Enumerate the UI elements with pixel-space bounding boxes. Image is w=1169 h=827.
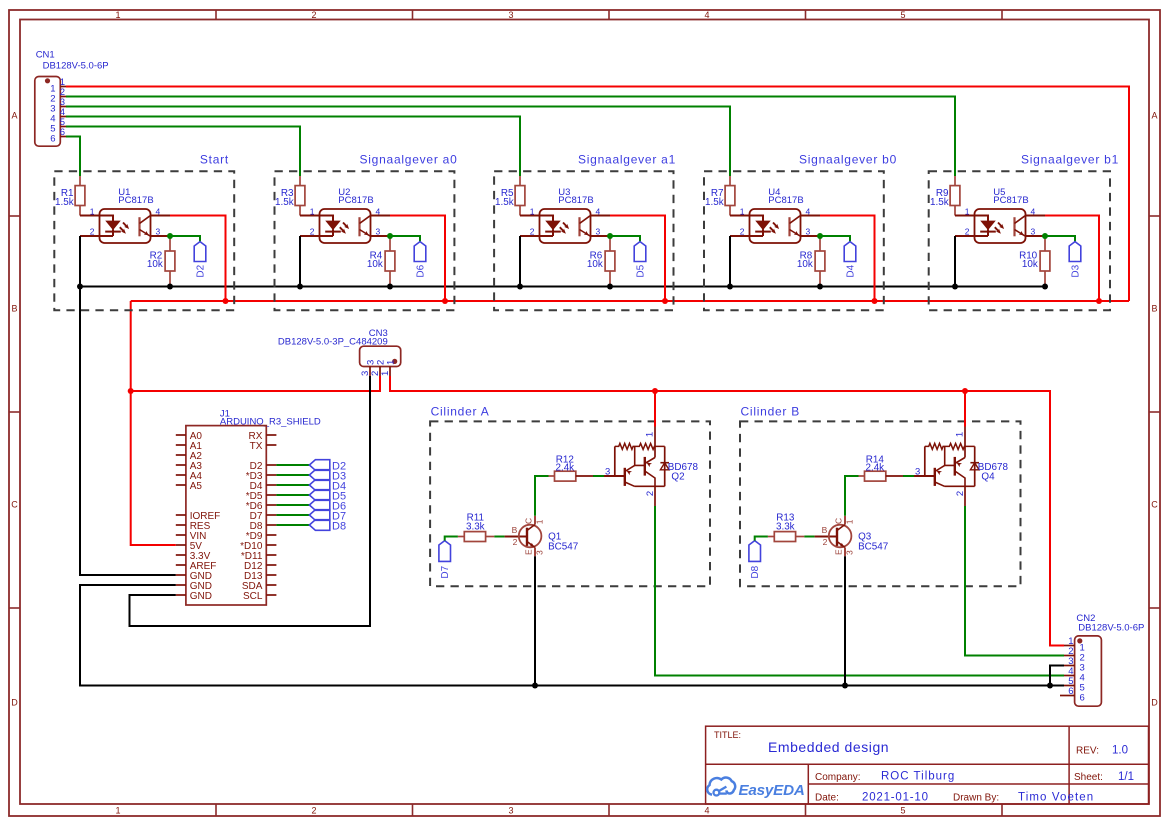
J1 right pin *D3 [246, 471, 277, 482]
transistor Q2 BD678 [615, 427, 699, 497]
section box Signaalgever b1 [929, 171, 1110, 310]
resistor R3 1.5k [275, 176, 305, 216]
CN1 pin 2 stub [50, 87, 66, 104]
wire J1 GND3 to CN3 pin3 [130, 376, 371, 626]
svg-text:Signaalgever a0: Signaalgever a0 [360, 152, 458, 166]
net flag D2 [194, 242, 206, 278]
CN2 pin 3 stub [1064, 656, 1085, 673]
net flag D5 [634, 242, 646, 278]
section title Signaalgever b0 [799, 152, 897, 166]
wire R11 to Q1 base [494, 536, 527, 538]
svg-text:2: 2 [513, 537, 518, 547]
J1 left pin A0 [176, 431, 203, 442]
J1 left pin 5V [176, 541, 202, 552]
J1 left pin AREF [176, 561, 217, 572]
J1 left pin RES [176, 521, 211, 532]
wire U3 pin3 to flag D5 [591, 236, 641, 242]
svg-text:Sheet:: Sheet: [1074, 772, 1103, 783]
section title Cilinder A [431, 404, 490, 418]
wire U5 pin4 to red bus [1026, 216, 1100, 302]
wire U3 pin4 to red bus [591, 216, 666, 302]
J1 right pin D2 [250, 461, 277, 472]
wire rail to Q2 pin1 [654, 391, 656, 427]
wire U4 pin2 to GND bus [730, 236, 750, 287]
wire Q1 collector to R12 [535, 476, 549, 516]
junction GND bus / CN2 pin3 [1047, 683, 1053, 689]
svg-text:D: D [11, 698, 18, 708]
junction U1 pin3 / R2 [167, 233, 173, 239]
J1 left pin GND [176, 581, 212, 592]
svg-text:Drawn By:: Drawn By: [953, 793, 999, 804]
svg-text:1: 1 [115, 806, 120, 816]
wire D7 to R11 [445, 537, 458, 541]
svg-text:1.0: 1.0 [1112, 745, 1128, 757]
svg-text:6: 6 [1080, 692, 1085, 703]
resistor R10 10k [1019, 236, 1050, 287]
svg-text:PC817B: PC817B [118, 195, 153, 206]
svg-text:PC817B: PC817B [558, 195, 593, 206]
svg-text:B: B [822, 525, 828, 535]
junction R4 / GND bus [297, 284, 393, 290]
svg-text:REV:: REV: [1076, 746, 1099, 757]
wire U1 pin4 to red bus [151, 216, 226, 302]
wire J1 D7 to net flag [276, 514, 309, 516]
wire U2 pin3 to flag D6 [371, 236, 421, 242]
wire CN3 pin1 rail to cylinders and CN2 pin1 [390, 376, 1064, 646]
connector CN3 DB128V-5.0-3P_C484209 [278, 328, 401, 376]
junction U4 pin3 / R8 [817, 233, 823, 239]
junction U2 pin4 / red bus [442, 298, 448, 304]
svg-text:1: 1 [310, 207, 315, 217]
svg-text:C: C [1151, 500, 1158, 510]
wire U4 pin4 to red bus [801, 216, 875, 302]
junction U2 pin3 / R4 [387, 233, 393, 239]
svg-text:C: C [524, 518, 534, 524]
transistor Q3 BC547 [822, 516, 889, 556]
wire J1 GND2 to bottom GND bus [80, 585, 1064, 686]
section box Signaalgever b0 [704, 171, 884, 310]
svg-text:Cilinder B: Cilinder B [741, 404, 801, 418]
junction R6 / GND bus [517, 284, 613, 290]
svg-text:Cilinder A: Cilinder A [431, 404, 490, 418]
svg-text:10k: 10k [1022, 259, 1038, 270]
junction U4 pin4 / red bus [872, 298, 878, 304]
junction U5 pin3 / R10 [1042, 233, 1048, 239]
resistor R6 10k [587, 236, 615, 287]
resistor R7 1.5k [705, 176, 735, 216]
svg-text:2: 2 [645, 491, 656, 496]
title block [706, 726, 1149, 804]
section box Signaalgever a1 [494, 171, 673, 310]
svg-text:Company:: Company: [815, 772, 861, 783]
resistor R14 2.4k [859, 454, 904, 481]
svg-text:3: 3 [508, 10, 513, 20]
wire R12 to Q2 pin3 [593, 466, 625, 477]
wire CN1 pin6 to opto input column x=80 [66, 137, 80, 177]
transistor Q1 BC547 [512, 516, 579, 556]
wire U2 pin2 to GND bus [300, 236, 320, 287]
svg-text:1: 1 [645, 432, 656, 437]
wire Q1 emitter to GND bus [534, 556, 536, 685]
svg-text:Date:: Date: [815, 793, 839, 804]
svg-text:6: 6 [50, 133, 55, 144]
resistor R11 3.3k [458, 512, 494, 541]
wire Q2 pin2 to CN2 [655, 486, 1064, 675]
svg-text:D5: D5 [635, 264, 646, 277]
svg-text:DB128V-5.0-6P: DB128V-5.0-6P [1078, 623, 1144, 634]
J1 left pin IOREF [176, 511, 220, 522]
wire U3 pin2 to GND bus [520, 236, 540, 287]
resistor R2 10k [147, 236, 175, 287]
junction U5 pin4 / red bus [1096, 298, 1102, 304]
svg-text:1: 1 [530, 207, 535, 217]
svg-text:D7: D7 [440, 565, 451, 578]
J1 right pin D13 [244, 571, 276, 582]
svg-text:10k: 10k [797, 259, 813, 270]
J1 right pin *D6 [246, 501, 277, 512]
svg-text:PC817B: PC817B [768, 195, 803, 206]
svg-text:DB128V-5.0-6P: DB128V-5.0-6P [43, 61, 109, 72]
CN2 pin 4 stub [1064, 666, 1085, 683]
svg-text:4: 4 [704, 806, 709, 816]
svg-text:1: 1 [965, 207, 970, 217]
resistor R5 1.5k [495, 176, 525, 216]
J1 right pin D8 [250, 521, 277, 532]
svg-text:3: 3 [360, 371, 371, 376]
J1 right pin D7 [250, 511, 277, 522]
svg-text:3: 3 [915, 466, 920, 477]
resistor R1 1.5k [55, 176, 85, 216]
svg-text:1: 1 [385, 360, 396, 365]
J1 right pin *D10 [240, 541, 276, 552]
wire U1 pin3 to flag D2 [151, 236, 201, 242]
J1 left pin A1 [176, 441, 203, 452]
wire CN1 pin5 to opto input column x=300 [66, 127, 300, 177]
junction U3 pin4 / red bus [662, 298, 668, 304]
junction rail / Q2 pin1 [652, 388, 658, 394]
resistor R8 10k [797, 236, 825, 287]
CN2 pin 6 stub [1060, 686, 1085, 703]
wire Q4 pin2 to CN2 [965, 486, 1064, 655]
svg-text:1.5k: 1.5k [55, 197, 74, 208]
wire red bus drop to CN3 feed [130, 301, 132, 391]
net flag D6 [414, 242, 426, 278]
section box Cilinder B [740, 421, 1021, 586]
svg-text:PC817B: PC817B [338, 195, 373, 206]
svg-text:CN1: CN1 [36, 50, 55, 61]
J1 right pin RX [248, 431, 276, 442]
svg-text:2: 2 [955, 491, 966, 496]
CN2 pin 1 stub [1064, 636, 1085, 653]
svg-text:Q4: Q4 [981, 471, 995, 482]
svg-text:Timo Voeten: Timo Voeten [1018, 792, 1094, 804]
svg-text:A: A [11, 111, 17, 121]
net flag D2 at J1 [309, 460, 346, 473]
J1 left pin A3 [176, 461, 203, 472]
svg-text:3: 3 [508, 806, 513, 816]
wire U5 pin2 to GND bus [955, 236, 975, 287]
junction R8 / GND bus [727, 284, 823, 290]
svg-text:5: 5 [900, 806, 905, 816]
svg-text:E: E [524, 549, 534, 555]
wire Q3 emitter to GND bus [844, 556, 846, 685]
junction R2 / GND bus [77, 284, 173, 290]
net flag D4 [844, 242, 856, 278]
svg-text:1: 1 [740, 207, 745, 217]
svg-text:3.3k: 3.3k [466, 522, 485, 533]
svg-text:B: B [512, 525, 518, 535]
svg-text:EasyEDA: EasyEDA [739, 782, 805, 799]
section box Cilinder A [430, 421, 710, 586]
wire D8 to R13 [755, 537, 768, 541]
svg-text:1: 1 [535, 519, 545, 524]
svg-text:1.5k: 1.5k [930, 197, 949, 208]
wire rail to Q4 pin1 [964, 391, 966, 427]
svg-text:2021-01-10: 2021-01-10 [862, 792, 929, 804]
CN1 pin 3 stub [50, 97, 66, 114]
connector CN2 DB128V-5.0-6P [1075, 613, 1145, 706]
resistor R13 3.3k [768, 512, 804, 541]
J1 left pin A4 [176, 471, 203, 482]
wire J1 D3 to net flag [276, 474, 309, 476]
junction R10 / GND bus [952, 284, 1048, 290]
svg-text:4: 4 [704, 10, 709, 20]
svg-text:BC547: BC547 [548, 541, 578, 552]
section title Signaalgever a1 [578, 152, 676, 166]
J1 right pin *D5 [246, 491, 277, 502]
svg-text:2.4k: 2.4k [555, 462, 574, 473]
net flag D3 [1069, 242, 1081, 278]
resistor R9 1.5k [930, 176, 960, 216]
wire U4 pin3 to flag D4 [801, 236, 851, 242]
wire CN1 pin2 to opto input column x=955 [66, 97, 955, 177]
junction GND bus / Q1 emitter [532, 683, 538, 689]
svg-text:2: 2 [370, 371, 381, 376]
J1 right pin D4 [250, 481, 277, 492]
svg-text:TX: TX [250, 441, 263, 452]
optocoupler U4 PC817B [730, 187, 811, 243]
svg-text:2.4k: 2.4k [865, 462, 884, 473]
svg-text:1: 1 [115, 10, 120, 20]
junction red bus / CN3 feed / 5V to J1 [128, 388, 134, 394]
svg-text:BC547: BC547 [858, 541, 888, 552]
svg-text:2: 2 [823, 537, 828, 547]
resistor R12 2.4k [549, 454, 594, 481]
section title Start [200, 152, 229, 166]
svg-text:5: 5 [900, 10, 905, 20]
optocoupler U5 PC817B [955, 187, 1036, 243]
svg-text:D3: D3 [1070, 264, 1081, 277]
svg-text:10k: 10k [367, 259, 383, 270]
svg-text:PC817B: PC817B [993, 195, 1028, 206]
wire GND bus across opto sections [80, 286, 1045, 288]
svg-text:3: 3 [605, 466, 610, 477]
svg-text:Signaalgever b0: Signaalgever b0 [799, 152, 897, 166]
Arduino shield J1 ARDUINO_R3_SHIELD [186, 409, 321, 605]
junction U3 pin3 / R6 [607, 233, 613, 239]
J1 right pin D12 [244, 561, 276, 572]
CN2 pin 2 stub [1064, 646, 1085, 663]
net flag D6 at J1 [309, 500, 346, 513]
svg-text:TITLE:: TITLE: [714, 730, 741, 740]
wire U1 pin2 to GND bus [80, 236, 176, 575]
net flag D3 at J1 [309, 470, 346, 483]
svg-text:B: B [1151, 304, 1157, 314]
wire red 5V bus across opto sections [131, 300, 1129, 302]
connector CN1 DB128V-5.0-6P [35, 50, 109, 147]
resistor R4 10k [367, 236, 395, 287]
wire U5 pin3 to flag D3 [1026, 236, 1076, 242]
net flag D4 at J1 [309, 480, 346, 493]
EasyEDA logo [707, 778, 804, 799]
junction U1 pin4 / red bus [223, 298, 229, 304]
J1 right pin TX [250, 441, 277, 452]
svg-text:2: 2 [375, 360, 386, 365]
J1 right pin *D11 [241, 551, 277, 562]
wire J1 5V to red bus drop [131, 391, 176, 545]
svg-text:Embedded design: Embedded design [768, 739, 889, 755]
optocoupler U1 PC817B [80, 187, 161, 243]
section title Signaalgever a0 [360, 152, 458, 166]
wire J1 D4 to net flag [276, 484, 309, 486]
section title Cilinder B [741, 404, 801, 418]
svg-text:2: 2 [311, 10, 316, 20]
svg-text:C: C [11, 500, 18, 510]
CN1 pin 5 stub [50, 117, 66, 134]
wire J1 D6 to net flag [276, 504, 309, 506]
J1 left pin GND [176, 591, 212, 602]
wire J1 D2 to net flag [276, 464, 309, 466]
svg-text:B: B [11, 304, 17, 314]
svg-text:1: 1 [845, 519, 855, 524]
wire J1 D5 to net flag [276, 494, 309, 496]
J1 left pin GND [176, 571, 212, 582]
svg-text:10k: 10k [147, 259, 163, 270]
J1 left pin VIN [176, 531, 207, 542]
CN2 pin 5 stub [1064, 676, 1085, 693]
wire J1 D8 to net flag [276, 524, 309, 526]
net flag D5 at J1 [309, 490, 346, 503]
J1 right pin *D9 [246, 531, 277, 542]
wire R14 to Q4 pin3 [903, 466, 935, 477]
section box Signaalgever a0 [275, 171, 455, 310]
svg-text:10k: 10k [587, 259, 603, 270]
svg-text:Q2: Q2 [671, 471, 684, 482]
svg-text:Start: Start [200, 152, 229, 166]
svg-text:1.5k: 1.5k [705, 197, 724, 208]
wire R13 to Q3 base [804, 536, 837, 538]
net flag D8 at J1 [309, 520, 346, 533]
svg-text:Signaalgever b1: Signaalgever b1 [1021, 152, 1119, 166]
svg-text:1: 1 [380, 371, 391, 376]
svg-text:ROC Tilburg: ROC Tilburg [881, 771, 955, 783]
optocoupler U3 PC817B [520, 187, 601, 243]
svg-text:1.5k: 1.5k [275, 197, 294, 208]
svg-text:1: 1 [90, 207, 95, 217]
svg-text:1.5k: 1.5k [495, 197, 514, 208]
J1 left pin 3.3V [176, 551, 211, 562]
junction GND bus / Q3 emitter [842, 683, 848, 689]
svg-text:D2: D2 [195, 264, 206, 277]
svg-text:3: 3 [535, 550, 545, 555]
svg-text:3: 3 [845, 550, 855, 555]
svg-text:GND: GND [190, 591, 212, 602]
junction rail / Q4 pin1 [962, 388, 968, 394]
wire red bus to CN3 pin2 [131, 376, 380, 391]
J1 right pin SCL [243, 591, 276, 602]
svg-text:A5: A5 [190, 481, 203, 492]
wire 5V net: CN1 pin1 to right edge down to red bus [66, 87, 1129, 302]
CN1 pin 4 stub [50, 107, 66, 124]
svg-text:SCL: SCL [243, 591, 263, 602]
svg-text:3: 3 [365, 360, 376, 365]
wire CN2 pin3 to GND bus [1050, 666, 1064, 686]
section box Start [54, 171, 234, 310]
svg-text:6: 6 [1068, 686, 1073, 697]
svg-text:D4: D4 [845, 264, 856, 277]
CN1 pin 6 stub [50, 127, 66, 144]
svg-text:2: 2 [311, 806, 316, 816]
transistor Q4 BD678 [925, 427, 1009, 497]
net flag D8 [749, 541, 761, 579]
svg-text:D6: D6 [415, 264, 426, 277]
svg-text:D8: D8 [750, 565, 761, 578]
svg-text:Signaalgever a1: Signaalgever a1 [578, 152, 676, 166]
svg-text:E: E [834, 549, 844, 555]
wire Q3 collector to R14 [845, 476, 859, 516]
svg-text:3.3k: 3.3k [776, 522, 795, 533]
section title Signaalgever b1 [1021, 152, 1119, 166]
wire CN1 pin3 to opto input column x=730 [66, 107, 730, 177]
wire CN1 pin4 to opto input column x=520 [66, 117, 520, 177]
svg-text:D8: D8 [332, 520, 346, 532]
svg-text:D: D [1151, 698, 1158, 708]
J1 right pin SDA [242, 581, 277, 592]
svg-text:6: 6 [60, 127, 65, 138]
svg-text:A: A [1151, 111, 1157, 121]
net flag D7 [439, 541, 451, 579]
optocoupler U2 PC817B [300, 187, 381, 243]
CN1 pin 1 stub [50, 77, 66, 94]
net flag D7 at J1 [309, 510, 346, 523]
svg-text:C: C [834, 518, 844, 524]
J1 left pin A2 [176, 451, 203, 462]
wire U2 pin4 to red bus [371, 216, 446, 302]
svg-text:1/1: 1/1 [1118, 771, 1134, 783]
J1 left pin A5 [176, 481, 203, 492]
svg-text:1: 1 [955, 432, 966, 437]
